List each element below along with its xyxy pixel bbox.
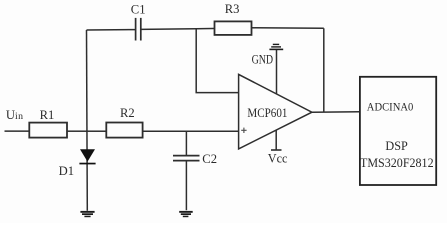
svg-text:GND: GND [252, 53, 274, 67]
svg-text:D1: D1 [59, 164, 74, 178]
svg-text:DSP: DSP [385, 139, 408, 153]
svg-text:R3: R3 [225, 2, 240, 16]
svg-text:C1: C1 [131, 3, 146, 17]
svg-text:MCP601: MCP601 [247, 106, 287, 120]
svg-text:ADCINA0: ADCINA0 [367, 100, 414, 113]
svg-text:Vcc: Vcc [268, 151, 288, 165]
svg-text:Uin: Uin [6, 108, 24, 122]
svg-text:R1: R1 [40, 108, 55, 122]
svg-text:C2: C2 [202, 152, 217, 166]
svg-text:TMS320F2812: TMS320F2812 [360, 156, 434, 170]
svg-text:R2: R2 [120, 106, 135, 120]
